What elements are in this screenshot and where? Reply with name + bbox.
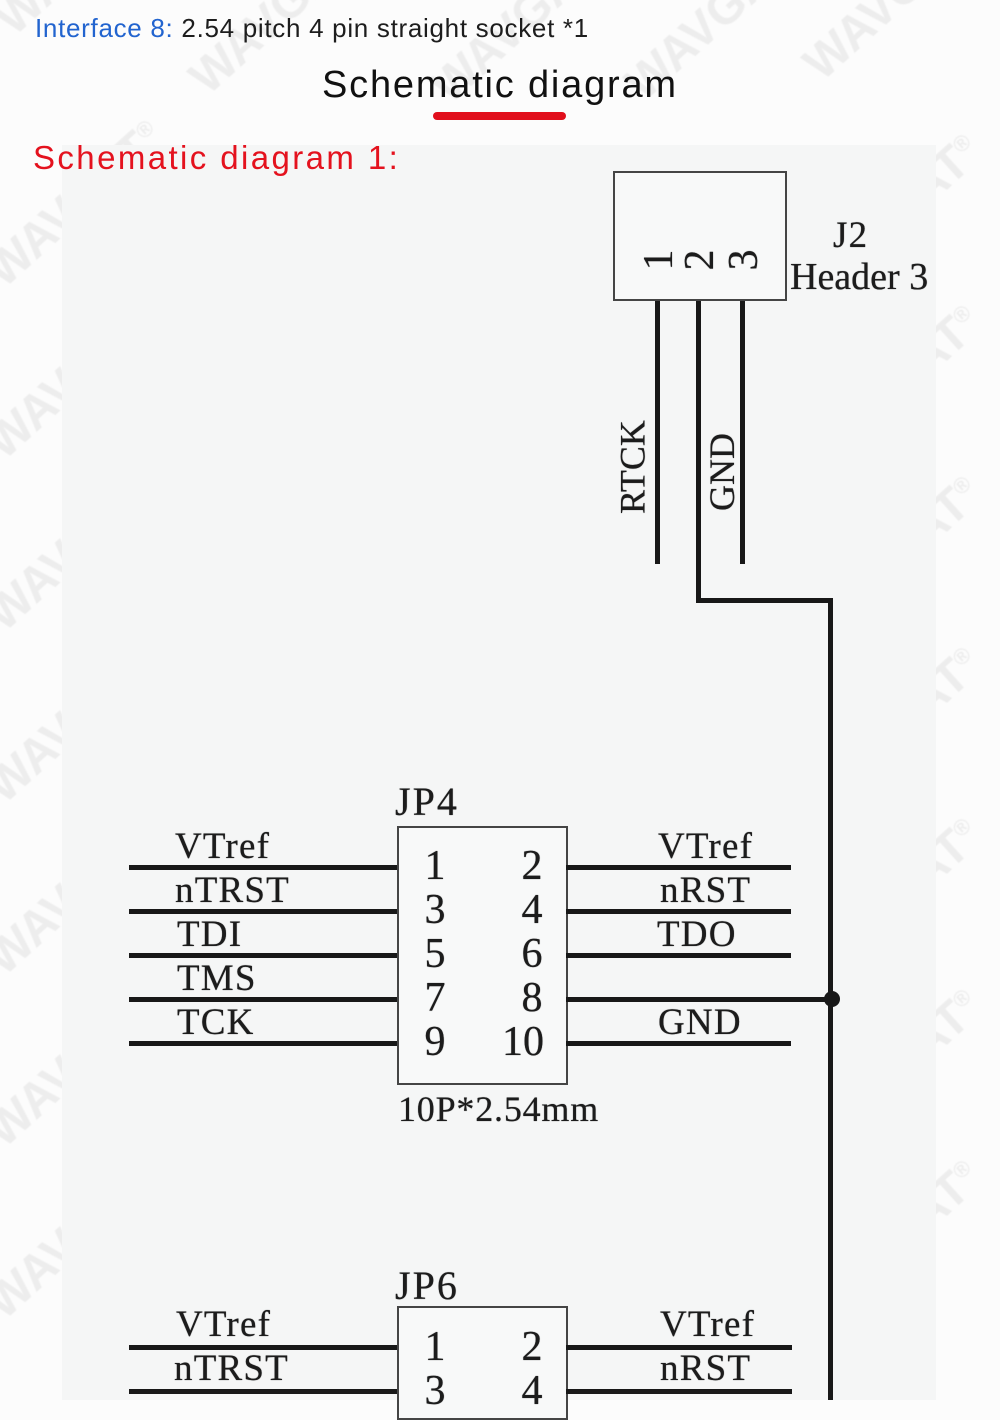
header line: Interface 8: ... xyxy=(35,13,589,44)
JP4 right wire pin8 to bus xyxy=(566,997,834,1002)
JP4 pin 6 xyxy=(517,933,547,975)
connector JP4 xyxy=(395,782,459,822)
JP6 pin 4 xyxy=(517,1370,547,1412)
JP4 pin 7 xyxy=(420,977,450,1019)
JP6 left wire pin1 xyxy=(129,1345,398,1350)
JP4 net label nTRST xyxy=(175,872,290,909)
J2 pin 2 wire xyxy=(696,301,701,602)
JP4 pin 8 xyxy=(517,977,547,1019)
JP4 right wire pin2 xyxy=(566,865,791,870)
JP4 right wire pin4 xyxy=(566,909,791,914)
JP4 pin 5 xyxy=(420,933,450,975)
J2 pin 1 wire xyxy=(655,301,660,564)
net label RTCK xyxy=(615,395,651,540)
J2 pin number 3 xyxy=(724,246,764,274)
JP6 pin 2 xyxy=(517,1326,547,1368)
net label GND xyxy=(704,417,740,527)
JP4 net label TDI xyxy=(177,916,242,953)
JP6 right wire pin4 xyxy=(566,1389,792,1394)
J2 refdes xyxy=(833,217,868,254)
JP4 pin 9 xyxy=(420,1021,450,1063)
J2 pin 3 wire xyxy=(740,301,745,564)
JP4 left wire pin7 xyxy=(129,997,398,1002)
JP4 pin 4 xyxy=(517,889,547,931)
JP6 net label VTref right xyxy=(660,1306,755,1343)
J2 value Header 3 xyxy=(790,258,928,296)
JP6 net label nRST xyxy=(660,1350,751,1387)
junction dot xyxy=(824,991,840,1007)
JP6 left wire pin3 xyxy=(129,1389,398,1394)
JP4 net label TCK xyxy=(177,1004,255,1041)
JP6 net label VTref left xyxy=(176,1306,271,1343)
connector JP6 xyxy=(395,1266,459,1306)
J2 pin number 2 xyxy=(680,246,720,274)
connector J2 xyxy=(613,171,787,301)
JP4 net label VTref right xyxy=(658,828,753,865)
JP6 right wire pin2 xyxy=(566,1345,792,1350)
JP4 pin 3 xyxy=(420,889,450,931)
page title xyxy=(322,64,678,107)
JP4 pin 10 xyxy=(498,1021,548,1063)
watermark layer xyxy=(0,0,1000,1)
GND bus vertical wire xyxy=(828,598,833,1401)
JP6 pin 1 xyxy=(420,1326,450,1368)
JP4 right wire pin6 xyxy=(566,953,791,958)
JP4 value label xyxy=(398,1091,599,1127)
J2 pin number 1 xyxy=(639,246,679,274)
JP6 net label nTRST xyxy=(174,1350,289,1387)
JP4 left wire pin3 xyxy=(129,909,398,914)
JP4 left wire pin1 xyxy=(129,865,398,870)
red underline xyxy=(433,112,566,120)
schematic image area xyxy=(62,145,936,1400)
JP4 pin 2 xyxy=(517,845,547,887)
JP4 net label VTref left xyxy=(175,828,270,865)
wire elbow from J2 pin2 xyxy=(696,598,833,603)
JP4 left wire pin9 xyxy=(129,1041,398,1046)
JP4 right wire pin10 xyxy=(566,1041,791,1046)
red section heading xyxy=(33,139,400,177)
JP6 pin 3 xyxy=(420,1370,450,1412)
JP4 net label nRST xyxy=(660,872,751,909)
JP4 pin 1 xyxy=(420,845,450,887)
JP4 net label TMS xyxy=(177,960,257,997)
JP4 left wire pin5 xyxy=(129,953,398,958)
JP4 net label TDO xyxy=(657,916,737,953)
JP4 net label GND xyxy=(658,1004,742,1041)
